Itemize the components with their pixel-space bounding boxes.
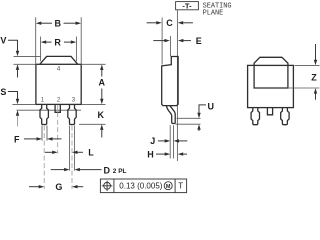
front face extension line [161, 18, 163, 65]
body outline front view [36, 64, 81, 104]
svg-text:3: 3 [72, 98, 76, 104]
position tolerance symbol [104, 182, 111, 189]
svg-text:V: V [0, 36, 6, 46]
back view pin 1 [251, 108, 259, 125]
svg-text:B: B [54, 18, 61, 28]
side view body outline [162, 57, 178, 106]
pin 1 centerline [43, 126, 45, 190]
svg-text:J: J [150, 136, 155, 146]
pin 2 lead front view [55, 105, 60, 113]
svg-text:PLANE: PLANE [203, 9, 224, 17]
dimension A [81, 63, 105, 65]
pin 3 centerline [71, 126, 73, 190]
svg-text:E: E [196, 36, 202, 46]
seating plane datum line [176, 10, 178, 161]
svg-text:T: T [178, 182, 183, 191]
svg-text:C: C [166, 18, 173, 28]
svg-text:D: D [104, 165, 111, 175]
back view pin 2 [267, 108, 272, 115]
pin 2 centerline [57, 105, 59, 154]
svg-text:M: M [166, 184, 171, 190]
dimension Z [295, 64, 320, 66]
svg-text:1: 1 [41, 98, 45, 104]
pin 3 foot extension lines [69, 126, 71, 171]
svg-text:F: F [14, 134, 20, 144]
back view tab [254, 57, 288, 88]
svg-text:U: U [208, 101, 215, 111]
M modifier circle [164, 182, 172, 190]
dimension B [35, 17, 37, 63]
pin 1 foot extension lines [41, 126, 43, 141]
svg-text:-T-: -T- [182, 1, 192, 10]
svg-text:R: R [54, 37, 61, 47]
svg-text:2 PL: 2 PL [113, 168, 127, 175]
tab front face extension line [169, 36, 171, 56]
lead face extension lines [169, 125, 171, 158]
dimension E [153, 40, 165, 42]
svg-text:2: 2 [57, 98, 61, 104]
svg-text:S: S [0, 87, 6, 97]
dimension D 2 PL [51, 169, 65, 171]
tab trapezoid front view [40, 56, 78, 64]
svg-text:K: K [98, 110, 105, 120]
side view lead [166, 106, 175, 124]
svg-text:G: G [55, 182, 62, 192]
dimension L [45, 151, 53, 153]
dimension R [40, 37, 42, 62]
svg-text:H: H [147, 149, 154, 159]
dimension C [147, 22, 157, 24]
svg-text:0.13 (0.005): 0.13 (0.005) [119, 182, 162, 191]
back view pin 3 [281, 108, 289, 125]
datum T box [176, 2, 199, 10]
dimension G [29, 186, 39, 188]
svg-text:Z: Z [311, 72, 317, 82]
pin 1 lead front view [40, 104, 48, 124]
pin 3 lead front view [68, 104, 76, 124]
wire shoulder line across leads [17, 109, 82, 111]
svg-text:4: 4 [57, 67, 61, 73]
tolerance frame box [100, 179, 186, 193]
back view body outline [248, 65, 294, 107]
svg-text:A: A [99, 77, 106, 87]
svg-text:L: L [88, 148, 94, 158]
